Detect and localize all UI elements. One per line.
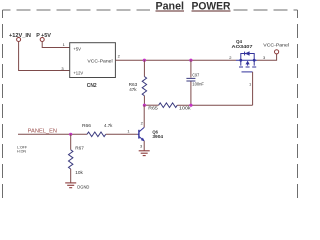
svg-text:DGND: DGND [77,185,90,191]
svg-text:R66: R66 [82,123,91,129]
transistor Q6 3904 npn [137,127,144,140]
wire Q4 gate to rail2 [252,72,254,105]
port VCC-Panel [263,42,289,54]
wire R66 to Q6 base [106,133,138,135]
svg-text:H:ON: H:ON [17,148,26,153]
resistor R63 [129,60,147,105]
Q4 channel arrow [246,61,250,65]
svg-text:VCC-Panel: VCC-Panel [87,59,112,65]
node junction C97/rail2 [189,104,192,107]
svg-text:R67: R67 [75,145,84,151]
wire +5V to CN2 pin1 [42,42,69,48]
resistor R67 [69,134,85,182]
node junction R63/rail [143,59,146,62]
svg-text:100k: 100k [179,106,191,112]
wire +12V_IN to CN2 pin3 [19,42,70,71]
transistor Q4 AO3407 pmos [236,52,257,72]
ground (Q6 emitter) [139,151,150,156]
svg-text:47k: 47k [129,87,137,93]
Q4 pin dots [239,59,242,62]
svg-text:3904: 3904 [152,134,163,140]
wire Q6 collector to rail2 [143,105,145,127]
connector CN2 [70,43,116,78]
Q4 body diode arrow [245,51,250,55]
svg-text:+12V: +12V [73,70,83,76]
node junction C97/rail [189,59,192,62]
ground DGND [65,183,76,188]
svg-text:R65: R65 [148,106,158,112]
svg-text:P: P [36,33,40,39]
svg-text:AO3407: AO3407 [232,44,253,50]
second rail: R65 line from R63 to Q4 gate [144,104,158,106]
wire Q4 drain to VCC-Panel port [257,54,277,60]
resistor R65 [148,103,191,112]
svg-text:4.7k: 4.7k [104,123,113,129]
node junction R67 [69,133,72,136]
node junction R65/R63 [143,104,146,107]
svg-text:+5V: +5V [73,47,81,53]
wire PANEL_EN [18,133,87,135]
port +12V_IN [9,33,31,42]
svg-text:PANEL_EN: PANEL_EN [28,129,58,135]
Q6 emitter arrow [141,138,145,142]
title Panel POWER [156,1,231,13]
resistor R66 [82,123,113,137]
port P +5V [36,33,51,42]
capacitor C97 [186,60,204,105]
wire R65 to gate drop [177,104,252,106]
svg-text:VCC-Panel: VCC-Panel [263,42,289,47]
wire VCC rail CN2 pin2 to Q4 [115,59,236,61]
wire Q6 emitter down [143,141,145,151]
svg-text:CN2: CN2 [87,83,97,89]
svg-text:100nF: 100nF [192,81,204,87]
svg-text:C97: C97 [192,73,199,79]
svg-text:10k: 10k [75,170,83,176]
